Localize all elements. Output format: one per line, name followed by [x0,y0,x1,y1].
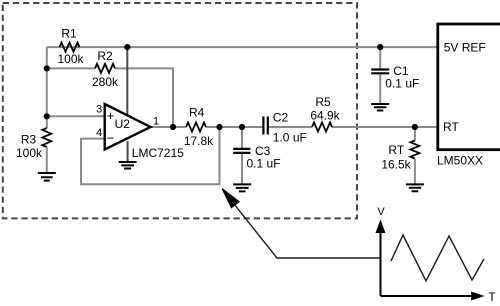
wire: left vertical node [46,47,48,128]
svg-text:3: 3 [96,104,102,116]
wire: non-inverting input [47,115,105,117]
node: R1 right / V+ junction [124,44,130,50]
resistor R5 [310,95,340,132]
wire: op-amp output to R4 [151,126,187,128]
op-amp U2 [96,104,184,160]
svg-text:64.9k: 64.9k [310,109,340,123]
svg-text:−: − [107,131,115,146]
svg-text:16.5k: 16.5k [381,157,411,171]
wire: op-amp V- to ground [127,141,129,161]
wire: R2 branch to output [47,68,173,127]
node: R4/feedback junction [216,124,222,130]
node: RT junction [412,124,418,130]
svg-text:LM50XX: LM50XX [437,154,483,168]
ground below RT [406,184,424,191]
svg-text:280k: 280k [92,75,119,89]
node: C1 top junction [377,44,383,50]
capacitor C3 [233,127,280,184]
waveform T axis [381,292,496,305]
svg-text:100k: 100k [16,146,43,160]
svg-text:V: V [377,206,385,218]
capacitor C1 [371,47,419,104]
resistor RT [381,127,419,184]
svg-text:0.1 uF: 0.1 uF [247,157,281,171]
svg-text:5V REF: 5V REF [444,40,486,54]
wire: inverting input feedback [81,127,220,184]
svg-text:C2: C2 [273,111,289,125]
svg-text:1: 1 [153,115,159,127]
wire: R5 to RT pin [332,126,438,128]
wire: op-amp V+ supply [126,47,128,115]
ground below R3 [38,173,56,181]
node: R2 branch junction [44,65,50,71]
svg-text:T: T [489,292,496,304]
svg-text:100k: 100k [57,52,84,66]
ground below C1 [371,104,389,111]
waveform triangle trace [391,235,484,281]
resistor R2 [92,49,119,89]
node: non-inverting input junction [44,113,50,119]
IC LM50XX box [437,24,500,168]
svg-text:R4: R4 [189,106,205,120]
resistor R3 [16,128,51,173]
resistor R1 [57,27,84,67]
svg-text:R3: R3 [21,133,37,147]
wire: 5V rail [47,46,438,48]
svg-text:+: + [107,108,115,123]
svg-text:R2: R2 [97,49,113,63]
svg-text:R1: R1 [61,27,77,41]
ground below op-amp [119,162,137,169]
svg-text:U2: U2 [115,117,131,131]
waveform V axis [376,206,386,296]
node: C3 junction [239,124,245,130]
svg-text:0.1 uF: 0.1 uF [385,76,419,90]
ground below C3 [233,184,251,191]
callout arrow to feedback node [222,189,380,259]
svg-text:R5: R5 [315,95,331,109]
dashed enclosure box [3,3,357,218]
svg-text:RT: RT [388,143,404,157]
svg-text:RT: RT [443,120,459,134]
node: op-amp output junction [170,124,176,130]
svg-text:LMC7215: LMC7215 [132,146,184,160]
capacitor C2 [263,111,306,145]
wire: C2 to R5 [269,126,312,128]
resistor R4 [184,106,214,149]
svg-text:17.8k: 17.8k [184,134,214,148]
svg-text:1.0 uF: 1.0 uF [273,131,307,145]
wire: R4 to C2 [206,126,262,128]
svg-text:4: 4 [96,127,102,139]
